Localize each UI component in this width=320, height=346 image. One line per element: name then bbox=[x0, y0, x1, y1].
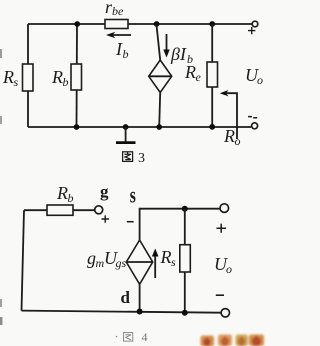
wire s corner to top rail bbox=[140, 209, 220, 240]
node Re top bbox=[209, 21, 215, 27]
wire Re branch bbox=[211, 24, 213, 127]
svg-text:3: 3 bbox=[138, 151, 145, 166]
node Rb top bbox=[74, 21, 80, 27]
node Rb bottom bbox=[74, 124, 80, 130]
terminal + (top right 2) bbox=[220, 204, 229, 213]
caption Fig 4 bbox=[116, 333, 133, 342]
resistor Rb2 bbox=[47, 205, 73, 215]
svg-text:b: b bbox=[63, 75, 69, 89]
svg-text:s: s bbox=[130, 183, 136, 209]
svg-text:s: s bbox=[171, 255, 176, 269]
resistor rbe bbox=[105, 20, 128, 29]
svg-text:gs: gs bbox=[116, 256, 127, 270]
dependent source beta-Ib (diamond U1) bbox=[149, 60, 172, 93]
plus (g side) bbox=[102, 215, 110, 222]
wire Rs branch vertical bbox=[184, 209, 186, 313]
current arrow Rs (up) bbox=[154, 255, 156, 278]
svg-text:βI: βI bbox=[170, 44, 187, 64]
terminal + (top right) bbox=[252, 21, 258, 27]
svg-text:R: R bbox=[56, 183, 68, 203]
wire Rb branch bbox=[76, 24, 79, 127]
svg-text:b: b bbox=[68, 191, 74, 205]
svg-text:be: be bbox=[112, 4, 124, 18]
wire left vertical 2 bbox=[22, 210, 25, 310]
minus (bottom right 2) bbox=[216, 294, 224, 296]
watermark (orange logo, bottom right) bbox=[201, 335, 265, 346]
caption Fig 3 bbox=[123, 152, 133, 162]
node Re bottom bbox=[209, 124, 215, 130]
svg-text:R: R bbox=[2, 67, 14, 87]
svg-text:e: e bbox=[196, 70, 202, 84]
wire left vertical (Rs branch) bbox=[27, 24, 29, 127]
wire CS branch top bbox=[156, 24, 160, 60]
terminal - (bottom right) bbox=[252, 123, 258, 129]
svg-text:o: o bbox=[257, 73, 263, 87]
scan edge artifacts bbox=[0, 49, 2, 58]
resistor Rs bbox=[23, 64, 34, 91]
wire below diamond bbox=[139, 284, 141, 311]
node Rs bottom bbox=[182, 310, 188, 316]
wire top rail bbox=[28, 23, 252, 25]
wire CS branch bottom bbox=[159, 93, 160, 128]
svg-text:o: o bbox=[235, 134, 241, 148]
svg-text:o: o bbox=[226, 262, 232, 276]
wire bottom rail bbox=[28, 126, 251, 128]
svg-text:R: R bbox=[51, 67, 63, 87]
resistor Rb bbox=[71, 64, 82, 90]
svg-text:R: R bbox=[184, 62, 196, 82]
wire gate lead bbox=[24, 209, 95, 211]
current arrow Ib bbox=[110, 34, 131, 36]
minus (s side) bbox=[127, 221, 134, 223]
svg-text:b: b bbox=[123, 47, 129, 61]
svg-text:R: R bbox=[160, 247, 172, 267]
svg-text:d: d bbox=[121, 288, 131, 307]
ground bbox=[123, 124, 129, 130]
resistor Rs2 bbox=[180, 245, 191, 272]
wire bottom rail 2 bbox=[22, 311, 221, 313]
arrow Ro (output resistance) bbox=[224, 93, 237, 139]
svg-text:4: 4 bbox=[142, 330, 148, 344]
svg-text:R: R bbox=[223, 126, 235, 146]
current arrow beta Ib bbox=[166, 34, 168, 51]
resistor Re bbox=[207, 62, 218, 87]
node d bbox=[137, 309, 143, 315]
node CS top bbox=[154, 21, 160, 27]
dependent source gmUgs (diamond U2) bbox=[126, 240, 152, 284]
node CS bottom bbox=[156, 124, 162, 130]
node top rail junction bbox=[182, 206, 188, 212]
svg-text:g: g bbox=[100, 182, 109, 201]
terminal - (bottom right 2) bbox=[221, 309, 229, 317]
terminal g bbox=[95, 206, 103, 214]
svg-text:s: s bbox=[14, 75, 19, 89]
